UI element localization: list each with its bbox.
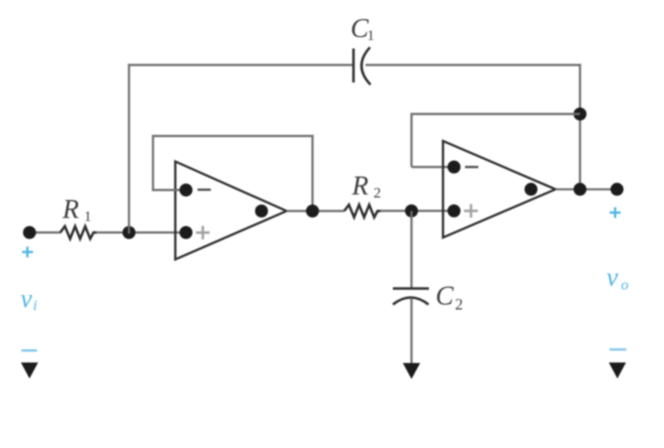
- ground arrow under C2: [403, 363, 420, 379]
- wire U1 feedback top horizontal: [152, 135, 314, 137]
- U2 noninverting input dot: [448, 204, 461, 217]
- node A dot (R1 / C1 branch junction): [123, 226, 136, 239]
- U1 noninverting input dot: [180, 226, 193, 239]
- input minus sign: [22, 349, 38, 351]
- op-amp U1: [175, 162, 286, 260]
- input plus sign: [22, 247, 33, 258]
- U1 plus sign: [196, 226, 210, 240]
- capacitor C2: [393, 289, 429, 305]
- wire U1 feedback from output up: [311, 135, 313, 211]
- op-amp U2: [443, 141, 556, 238]
- U2 plus sign: [464, 204, 478, 218]
- wire right vertical from top rail to output node: [579, 64, 581, 189]
- wire node B down to C2: [410, 211, 412, 288]
- U1 inverting input dot: [180, 184, 193, 197]
- resistor R1: [60, 226, 96, 239]
- wire top rail right of C1: [366, 64, 582, 66]
- output terminal dot: [611, 183, 624, 196]
- U1 output junction dot: [306, 205, 319, 218]
- wire top rail left of C1: [128, 64, 354, 66]
- wire R2 to op-amp U2 noninverting input: [381, 210, 454, 212]
- ground arrow under vi: [21, 363, 38, 379]
- ground arrow under vo: [609, 363, 626, 379]
- U2 output dot: [525, 183, 538, 196]
- U2 inverting input dot: [448, 161, 461, 174]
- wire U2 feedback vertical: [410, 113, 412, 167]
- wire R1 to op-amp U1 noninverting input: [97, 231, 186, 233]
- junction dot C1 / U2 feedback: [574, 108, 587, 121]
- wire U2 feedback to inverting input: [412, 166, 455, 168]
- wire input to R1: [30, 231, 62, 233]
- input terminal dot: [23, 226, 36, 239]
- wire U1 output to R2: [287, 210, 345, 212]
- wire U1 feedback to inverting input: [153, 189, 186, 191]
- output plus sign: [610, 207, 621, 218]
- wire node A up to top rail: [128, 64, 130, 234]
- node B dot (R2 / C2 junction): [405, 204, 418, 217]
- capacitor C1: [354, 47, 371, 84]
- wire U2 feedback horizontal: [412, 113, 581, 115]
- wire C2 to ground: [410, 298, 412, 370]
- wire U1 feedback left vertical: [152, 135, 154, 191]
- U1 minus sign: [198, 189, 211, 191]
- resistor R2: [344, 205, 381, 218]
- wire U2 output to terminal: [556, 188, 618, 190]
- U2 minus sign: [465, 166, 478, 168]
- output minus sign: [610, 348, 627, 350]
- output junction dot: [574, 183, 587, 196]
- U1 output dot: [255, 205, 268, 218]
